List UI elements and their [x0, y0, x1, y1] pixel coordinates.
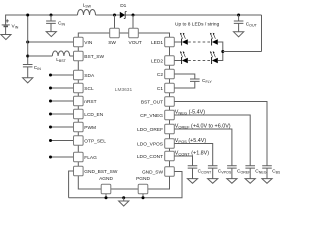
pin PWM [74, 122, 84, 132]
svg-text:GND_SW: GND_SW [142, 170, 164, 176]
wire LED2 dashed [188, 60, 211, 62]
wire right edge drop [261, 15, 263, 52]
wire VOREF net [174, 129, 232, 166]
capacitor CNEG [245, 166, 266, 179]
wire PGND drop [142, 194, 144, 198]
svg-text:C1: C1 [157, 86, 163, 92]
pin GND_BST_SW [74, 166, 84, 176]
svg-text:D1: D1 [120, 3, 126, 9]
pin LDO_VPOS [165, 139, 175, 149]
pin nRST [74, 96, 84, 106]
wire GND_BST_SW to rail [69, 171, 74, 198]
wire nRST stub [51, 100, 74, 102]
svg-text:C2: C2 [157, 72, 163, 78]
svg-text:LED1: LED1 [151, 40, 163, 46]
capacitor COREF [227, 166, 251, 179]
ground COUT [234, 32, 244, 37]
wire LED2 row [174, 60, 181, 62]
svg-text:LDO_VPOS: LDO_VPOS [137, 142, 163, 148]
wire VPOS net [174, 144, 212, 166]
wire C2 [174, 74, 195, 79]
pin LDO_CONT [165, 151, 175, 161]
node nRST [49, 100, 52, 103]
node SDA [49, 74, 52, 77]
wire VCONT net [174, 156, 192, 166]
wire LED2 return [218, 52, 223, 61]
svg-text:SCL: SCL [84, 86, 94, 92]
svg-text:GND_BST_SW: GND_BST_SW [84, 169, 118, 175]
capacitor CVPOS [208, 166, 232, 179]
node LCD_EN [49, 113, 52, 116]
ground COREF [227, 179, 237, 184]
svg-text:LDO_CONT: LDO_CONT [137, 154, 163, 160]
ground CIN left [23, 78, 33, 83]
battery VIN source [2, 19, 19, 34]
node OTP_SEL [49, 139, 52, 142]
pin LDO_OREF [165, 124, 175, 134]
svg-text:BST_SW: BST_SW [84, 54, 104, 60]
capacitor CBST [262, 166, 283, 179]
svg-text:LDO_OREF: LDO_OREF [137, 127, 163, 133]
capacitor CCONT [188, 166, 212, 179]
wire LCD_EN stub [51, 113, 74, 115]
pin CP_VNEG [165, 110, 175, 120]
pin GND_SW [165, 167, 175, 177]
pin VOUT [129, 28, 139, 38]
wire SDA stub [51, 74, 74, 76]
node left rail top junction [26, 14, 29, 17]
LED D row2 b [210, 51, 218, 64]
node VOUT junction [132, 14, 135, 17]
node LBST rail junction [26, 55, 29, 58]
inductor LSW [78, 2, 96, 15]
wire LED1 dashed [188, 41, 211, 43]
node PGND rail [142, 196, 145, 199]
pin SDA [74, 70, 84, 80]
capacitor CIN top [46, 15, 65, 32]
inductor LBST [28, 51, 74, 63]
ground CCONT [187, 179, 197, 184]
node SCL [49, 87, 52, 90]
wire VOUT pin drop [132, 15, 134, 28]
wire VIN pin [28, 41, 74, 43]
svg-text:BST_OUT: BST_OUT [141, 100, 163, 106]
pin LED1 [165, 37, 175, 47]
pin BST_OUT [165, 97, 175, 107]
node GND rail center [122, 196, 125, 199]
pin LED2 [165, 56, 175, 66]
ground CBST [262, 179, 272, 184]
pin C2 [165, 69, 175, 79]
svg-text:SW: SW [108, 40, 116, 46]
ground CNEG [245, 179, 255, 184]
IC LM3631 body [78, 33, 169, 189]
svg-text:LED2: LED2 [151, 59, 163, 65]
wire LED1 return [218, 42, 223, 52]
LED D row2 a [180, 51, 188, 64]
svg-text:PWM: PWM [84, 125, 96, 131]
node VIN rail junction [26, 41, 29, 44]
svg-text:nRST: nRST [84, 99, 96, 105]
wire left rail [27, 15, 29, 65]
wire GND_SW net [69, 172, 182, 198]
node CIN1 junction [50, 14, 53, 17]
ground CIN top [46, 32, 56, 37]
wire FLAG stub [51, 156, 74, 158]
pin LCD_EN [74, 109, 84, 119]
ground CVPOS [208, 179, 218, 184]
pin AGND [101, 184, 111, 194]
capacitor COUT [234, 15, 258, 32]
svg-text:VOUT: VOUT [129, 40, 142, 46]
LED D row1 b [210, 33, 218, 46]
capacitor CIN left [23, 65, 41, 78]
wire top rail left [6, 15, 78, 25]
wire AGND drop [105, 194, 107, 198]
pin PGND [138, 184, 148, 194]
wire LED1 row [174, 41, 181, 43]
diode D1 schottky [120, 3, 127, 18]
svg-text:OTP_SEL: OTP_SEL [84, 139, 106, 145]
svg-text:CP_VNEG: CP_VNEG [140, 113, 163, 119]
wire C1 [174, 81, 195, 88]
pin SCL [74, 83, 84, 93]
svg-text:SDA: SDA [84, 73, 95, 79]
node PWM [49, 126, 52, 129]
node SW junction [113, 14, 116, 17]
pin VIN [74, 37, 84, 47]
pin SW [110, 28, 120, 38]
pin FLAG [74, 152, 84, 162]
node AGND rail [105, 196, 108, 199]
svg-text:PGND: PGND [136, 176, 150, 182]
capacitor CFLY [190, 78, 212, 84]
svg-text:Up to 8 LEDs / string: Up to 8 LEDs / string [175, 21, 220, 27]
ground battery [1, 35, 11, 40]
LED D row1 a [180, 33, 188, 46]
svg-text:LM3631: LM3631 [115, 87, 133, 93]
svg-text:FLAG: FLAG [84, 155, 97, 161]
svg-text:AGND: AGND [99, 176, 113, 182]
node COUT junction [237, 14, 240, 17]
ground bottom rail [119, 198, 129, 206]
wire LED return to VOUT [223, 51, 262, 53]
wire SCL stub [51, 87, 74, 89]
node FLAG [49, 156, 52, 159]
wire PWM stub [51, 126, 74, 128]
node LED return junction [221, 50, 224, 53]
wire OTP_SEL stub [51, 140, 74, 142]
pin OTP_SEL [74, 136, 84, 146]
pin C1 [165, 83, 175, 93]
wire VNEG net [174, 115, 250, 166]
wire BST_OUT net [174, 102, 267, 166]
wire top rail mid [96, 14, 262, 16]
pin BST_SW [74, 51, 84, 61]
svg-text:LCD_EN: LCD_EN [84, 112, 103, 118]
wire SW pin drop [114, 15, 116, 28]
svg-text:VIN: VIN [84, 40, 93, 46]
